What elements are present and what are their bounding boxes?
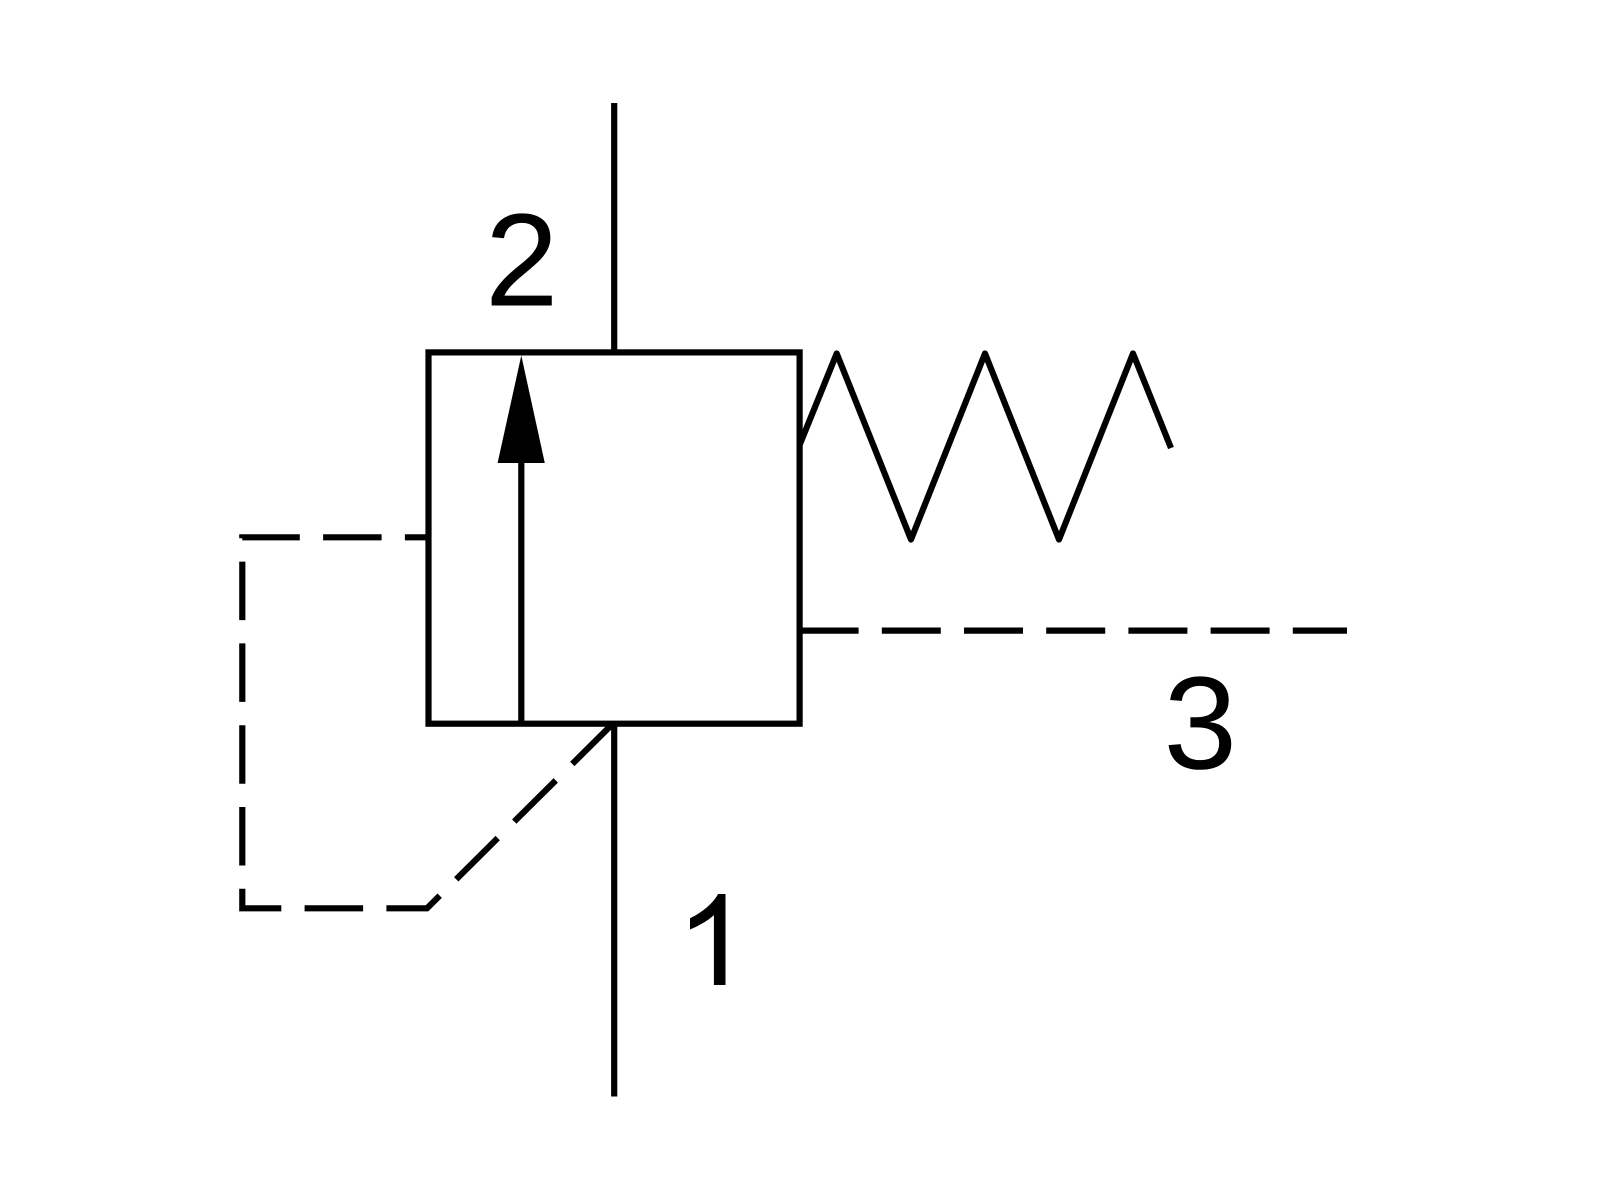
valve body U1 — [429, 352, 800, 723]
port 2 line — [611, 103, 617, 352]
flow arrow shaft — [518, 458, 524, 724]
svg-text:2: 2 — [485, 187, 558, 334]
label 1 — [690, 894, 726, 985]
port 1 line — [611, 724, 617, 1097]
svg-text:3: 3 — [1164, 650, 1237, 797]
flow arrow head — [498, 356, 545, 464]
spring — [800, 354, 1171, 540]
port 3 dashed pilot line — [800, 627, 1347, 633]
pilot control dashed line — [242, 537, 612, 908]
